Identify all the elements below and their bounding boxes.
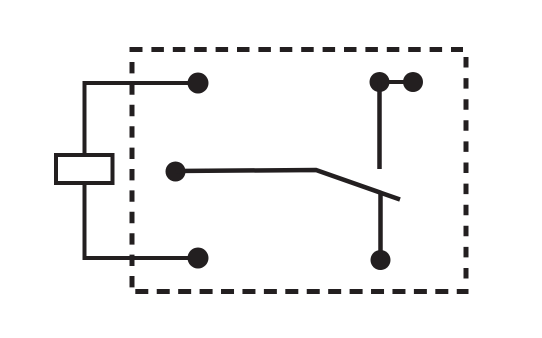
NC terminal dot — [371, 250, 391, 270]
relay enclosure dashed outline bottom — [130, 289, 469, 294]
pin 2 terminal dot — [188, 248, 209, 269]
wire coil top lead to pin 1 — [85, 83, 199, 153]
coil K1 — [56, 155, 113, 183]
NO contact terminal dots pair — [370, 72, 390, 92]
wire joining NO dots — [380, 80, 414, 84]
relay enclosure dashed outline top — [130, 47, 463, 52]
relay enclosure dashed outline right — [464, 57, 469, 294]
common terminal dot — [166, 162, 186, 182]
wire NC contact stem — [378, 193, 383, 260]
wire coil bottom lead to pin 2 — [85, 185, 199, 258]
relay enclosure dashed outline left — [130, 47, 135, 294]
wire NO contact stem — [377, 82, 382, 169]
switch arm (common to movable blade) — [176, 170, 401, 200]
pin 1 terminal dot — [188, 73, 209, 94]
